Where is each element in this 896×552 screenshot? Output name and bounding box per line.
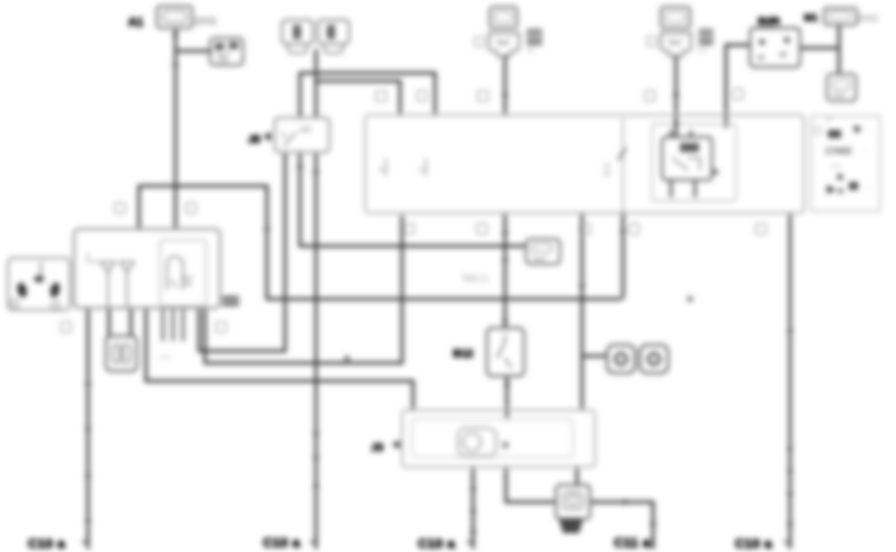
wire J3 bottom stub to comp [576,467,579,485]
label H5 [222,298,239,304]
left box switch contacts [101,262,134,272]
left box J4 outline [74,229,220,308]
wire fuse pair down long middle line [315,49,318,549]
wire A1 to G34 stub [176,50,213,53]
cluster2 top box [661,7,690,28]
svg-text:M1: M1 [804,13,818,24]
svg-text:C10 a: C10 a [735,536,772,551]
wire left box over-route to fusebox [139,186,621,299]
wire J3 bottom to bottom comp [506,467,556,502]
svg-text:OO: OO [300,127,311,134]
wire fuse cluster1 down [504,54,507,116]
svg-text:C10 a: C10 a [263,535,300,550]
wire A1 down to left box [174,27,177,229]
component C fuse mid [526,239,560,264]
cluster1 top box [490,7,517,28]
svg-text:(D03): (D03) [194,16,217,26]
lamp L2 [640,345,668,373]
component G34 body [210,38,243,65]
svg-text:50: 50 [604,172,611,178]
wire branch fuse to fusebox pin [316,81,400,116]
internal pin dash 1 [385,158,387,176]
fusebox B1 outline [365,115,804,213]
wire bottom comp to C11 [590,502,653,549]
wire top-right comp down [800,24,839,74]
wire J5 pin to C-fuse comp [300,152,526,246]
fuse F2 [318,20,349,44]
wire J5 top feed from fusebox [300,73,435,118]
J5 switch symbol [284,132,296,146]
cluster1 fuse [489,33,519,57]
component J5 body [275,118,329,152]
svg-text:15: 15 [418,168,425,174]
svg-text:C11 a: C11 a [614,535,651,550]
component B2 body [750,28,800,67]
relay inner mark [672,158,700,170]
internal pin dash 2 [425,158,427,176]
left box pump symbol [167,256,183,290]
box J3 outline [402,410,595,467]
fuse F1 [282,20,313,44]
svg-text:61: 61 [604,164,611,170]
relay side arrow [712,168,720,176]
wire B12 to J3 [506,376,509,419]
right legend panel [811,116,880,211]
svg-text:B12: B12 [453,348,473,360]
label J3 [392,440,400,449]
lamp L1 [607,345,635,373]
wire left box pin to fusebox bottom pin [205,215,402,363]
wire lamp stub [582,355,607,358]
svg-text:--: -- [866,186,870,192]
svg-text:A1: A1 [128,15,144,29]
cluster2 fuse [661,33,691,57]
pin squares below fusebox [404,224,414,234]
pin square above fusebox 1 [61,89,766,332]
svg-text:30: 30 [378,168,385,174]
wire arrows [85,34,794,537]
svg-text:B2R: B2R [758,16,780,28]
svg-text:G34: G34 [217,59,229,65]
wire fusebox to bottom C10 x790 [789,213,792,549]
cluster1 right icon [527,29,542,45]
label J5 [263,132,271,141]
svg-text:17A02: 17A02 [825,146,852,156]
component B12 body [487,328,524,376]
wire J3 to bottom C10 x473 [472,467,475,549]
left connector T10 body [8,258,70,310]
component M1 top right [824,8,857,25]
cluster1 left pin square [475,37,484,46]
svg-text:F14: F14 [698,48,707,54]
svg-text:F10: F10 [526,48,535,54]
cluster2 left pin square [647,37,656,46]
wire fuse cluster2 to relay [675,54,678,137]
relay T1 body [662,137,712,180]
wire left box pins to G comp [109,308,131,336]
relay inner contact [680,143,699,152]
wire fusebox down x582 to J3 [581,213,584,410]
J3 inner motor symbol [458,428,496,456]
component C right small [827,74,856,101]
svg-text:C10 a: C10 a [418,536,455,551]
left box inner sub-box [160,240,206,306]
svg-text:D11 ( ): D11 ( ) [463,273,489,283]
wire left box to bottom C10 x88 [87,308,90,549]
fusebox inner sub-box [652,124,736,201]
wire B2 to fusebox [726,45,750,128]
wire left box stub pins [163,308,183,341]
wire fusebox to B12 [504,213,507,328]
bottom component C bulb [556,485,590,519]
wire left box pin to J3 [146,308,413,411]
component A1 body [157,6,192,28]
svg-text:J5: J5 [248,134,260,146]
svg-text:(D02): (D02) [858,14,878,23]
svg-text:--: -- [864,148,868,154]
internal switch element x623 [622,118,624,213]
cluster2 right icon [699,29,713,45]
pin squares left box [115,203,125,213]
svg-text:C10 a: C10 a [28,536,65,551]
relay pins [671,130,695,198]
wire fusebox pin down x623 [622,213,625,299]
wire end tick x88 [82,541,790,543]
component G below left box [106,336,137,371]
svg-text:n n: n n [161,355,169,361]
svg-text:J3: J3 [371,442,383,454]
svg-text:--: -- [866,128,870,134]
wire left box pin to J5 [199,152,285,351]
svg-text:o o: o o [831,163,841,170]
